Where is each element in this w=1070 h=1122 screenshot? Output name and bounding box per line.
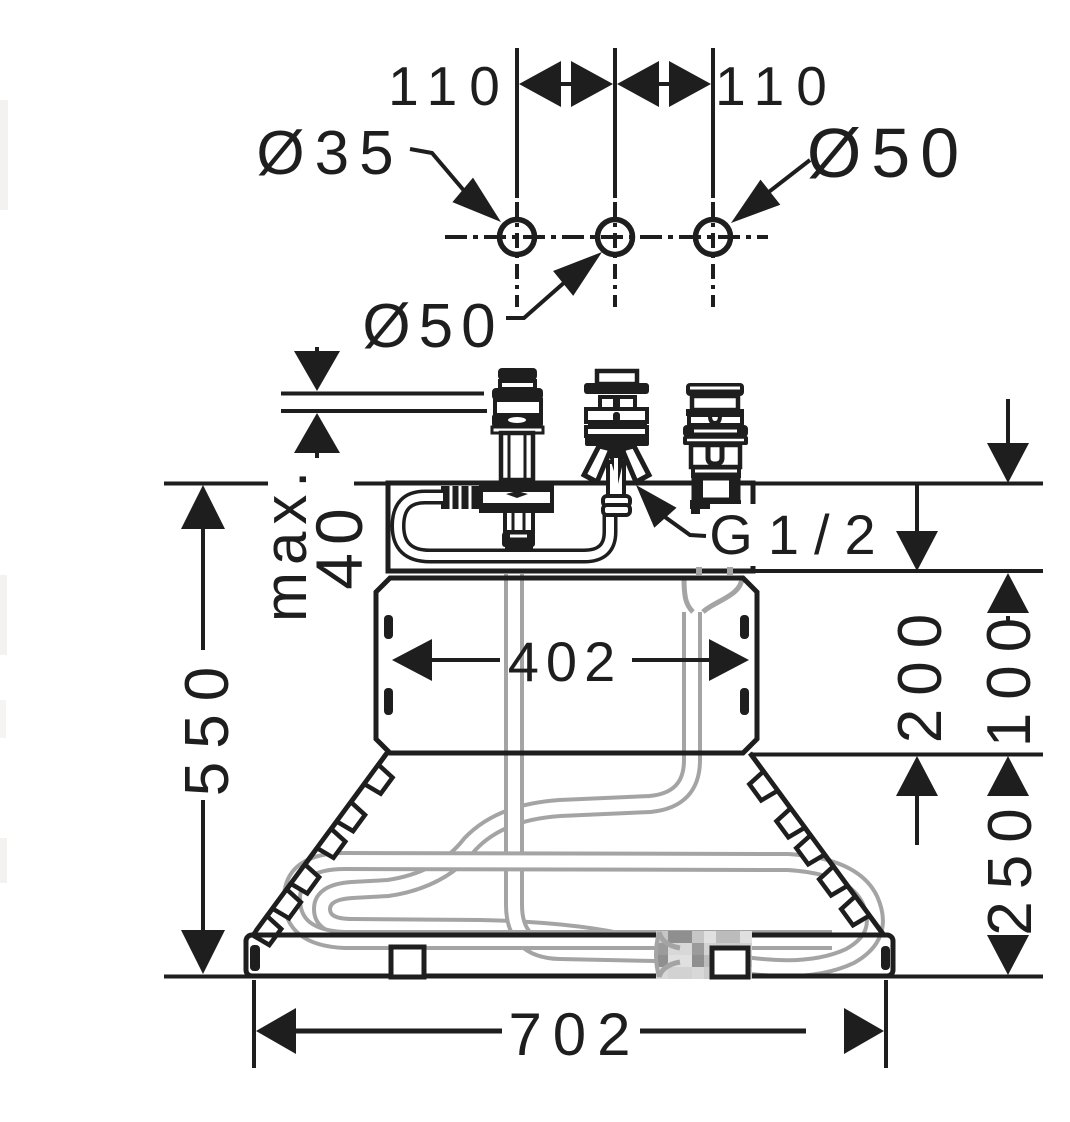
fitting2 center cone — [606, 446, 627, 484]
dim 200 bottom arrow — [896, 756, 938, 796]
fitting2 top bar — [597, 371, 637, 384]
dim 200 top arrow — [915, 484, 919, 536]
fitting1 ring — [500, 381, 535, 389]
flange outline — [246, 935, 893, 976]
left slope — [256, 753, 387, 931]
svg-text:40: 40 — [302, 500, 376, 589]
fitting3 block2 — [689, 415, 742, 425]
fitting2 band1 — [586, 409, 647, 422]
dim 110 right arrowheads — [617, 61, 659, 107]
body box outline — [376, 578, 757, 753]
component white square — [712, 948, 748, 977]
svg-text:Ø35: Ø35 — [256, 119, 403, 188]
tee left nut — [441, 486, 481, 509]
grey ticks above bell — [696, 567, 702, 575]
fitting3 lower body — [694, 478, 738, 500]
fitting2 pipe below wings — [608, 462, 624, 498]
hole left (D35) — [500, 220, 535, 255]
dim 702 extension lines — [252, 980, 256, 1068]
flange left pill — [250, 945, 260, 971]
svg-text:Ø50: Ø50 — [362, 292, 503, 361]
fitting1 shank — [501, 433, 533, 480]
svg-text:702: 702 — [508, 1001, 641, 1068]
dim 250 top arrow — [987, 756, 1029, 796]
svg-text:100: 100 — [975, 605, 1044, 747]
fitting3 band1 — [683, 425, 748, 437]
scan artifacts left edge — [0, 100, 8, 210]
max40 reference lines — [281, 392, 484, 396]
fitting2 cap — [584, 383, 649, 394]
leader D50 right — [752, 160, 810, 205]
fitting1 body — [495, 400, 541, 415]
right ref line y571 — [753, 569, 1043, 573]
left slope teeth — [364, 765, 392, 794]
fitting2 block — [600, 397, 635, 409]
dim max40 lower arrow — [294, 413, 340, 453]
bottom reference line — [164, 975, 1043, 979]
G1/2 leader arrow — [636, 485, 677, 528]
fitting3 body — [691, 445, 740, 467]
leader D35 — [410, 149, 466, 193]
dim 702 right arrow — [640, 1029, 806, 1034]
tee lower stack — [505, 511, 533, 532]
dim max40 upper arrow — [315, 347, 319, 352]
horizontal centerline through holes — [445, 235, 768, 239]
dim 100 bottom arrow — [987, 573, 1029, 613]
deck box — [388, 483, 753, 571]
svg-text:250: 250 — [976, 796, 1045, 935]
text G1/2 — [710, 504, 892, 566]
svg-text:200: 200 — [886, 601, 955, 743]
hole middle (D50) — [598, 220, 633, 255]
right slope — [750, 753, 883, 934]
svg-text:G1/2: G1/2 — [709, 503, 890, 566]
slot pills left — [384, 615, 393, 639]
dim 250 bottom arrow — [987, 935, 1029, 975]
dim 550 arrows and line — [181, 485, 225, 529]
fitting2 band2 — [586, 427, 647, 436]
dim 110 left arrowheads — [519, 61, 561, 107]
flange square left — [391, 947, 424, 977]
fitting1 top cap — [498, 368, 537, 380]
svg-text:110: 110 — [715, 55, 839, 117]
black hose loop — [398, 497, 610, 556]
fitting3 top bar — [686, 383, 744, 396]
grey hose: middle tee pipe down to bottom run — [514, 574, 656, 953]
flange right pill — [881, 946, 890, 970]
hole-pattern vertical extension lines — [515, 48, 519, 198]
svg-text:110: 110 — [388, 55, 512, 117]
grey bell at right pipe top — [684, 577, 693, 612]
leader D50 lower — [506, 281, 566, 318]
fitting1 flange — [492, 388, 543, 400]
svg-text:402: 402 — [508, 630, 622, 693]
fitting3 band2 — [691, 466, 741, 478]
dim 550 top ref line — [164, 482, 268, 486]
fitting2 left wing — [584, 446, 611, 482]
right slope teeth — [749, 771, 777, 800]
deck top reference line — [354, 482, 1043, 486]
svg-text:550: 550 — [173, 654, 242, 796]
elbow barrel — [603, 496, 630, 506]
svg-text:Ø50: Ø50 — [807, 114, 969, 192]
grey bell at component — [659, 932, 680, 948]
ref line y754 — [750, 753, 1043, 757]
fitting3 block1 — [692, 396, 738, 410]
hole right (D50) — [696, 220, 731, 255]
grey hose: from right pipe to inner hairpin — [322, 612, 692, 950]
dim 702 left arrow — [256, 1008, 296, 1054]
tee body — [481, 484, 552, 511]
dim 100 top arrow — [1006, 399, 1010, 446]
fitting1 band — [492, 414, 543, 427]
grey hose: outer hairpin with right loop — [292, 861, 875, 968]
fitting2 right wing — [622, 446, 649, 482]
pixelated component mosaic — [656, 931, 668, 943]
slot pills right — [740, 615, 749, 639]
dim 402 — [392, 639, 432, 681]
